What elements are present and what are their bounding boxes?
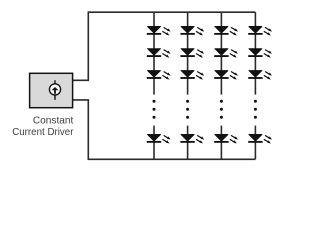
svg-text:Constant: Constant <box>33 116 74 127</box>
svg-text:Current Driver: Current Driver <box>12 127 74 138</box>
